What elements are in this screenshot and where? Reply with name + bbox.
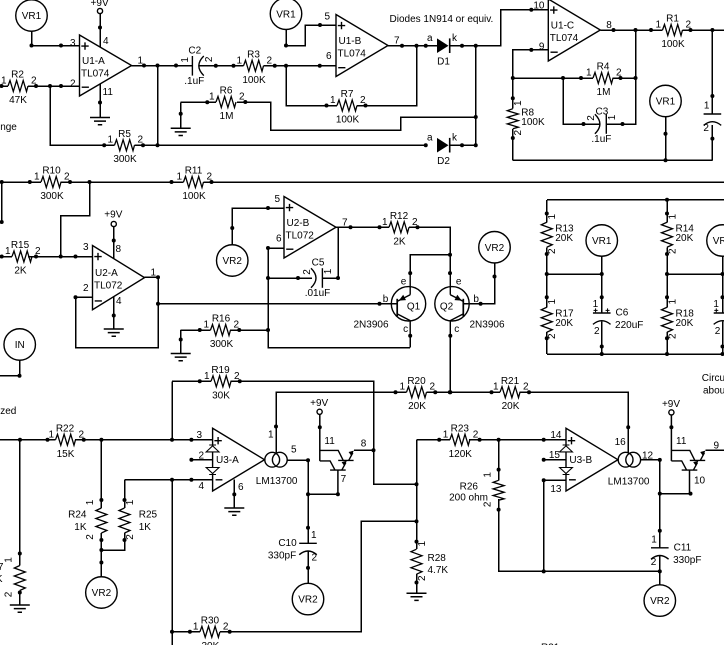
svg-text:VR2: VR2 [92, 588, 112, 599]
wire C2 to R3 [199, 65, 244, 67]
svg-text:1: 1 [713, 299, 719, 310]
junction dots [336, 276, 340, 280]
junction dots [284, 23, 322, 48]
wire R4 to output node [613, 77, 636, 79]
wire Q1 collector [409, 336, 411, 348]
svg-text:7: 7 [341, 474, 347, 485]
svg-text:20K: 20K [676, 318, 694, 329]
svg-text:C6: C6 [616, 308, 629, 319]
svg-text:1: 1 [5, 246, 11, 257]
svg-text:2: 2 [667, 248, 678, 254]
wire D1 cathode to U1-C pin 10 [451, 10, 549, 46]
wire R22 left down to R27 [19, 440, 21, 566]
svg-text:330pF: 330pF [268, 550, 296, 561]
junction dots [142, 64, 178, 68]
svg-text:TL074: TL074 [81, 69, 110, 80]
junction dots [415, 519, 419, 543]
junction dots [582, 122, 586, 126]
junction dots [372, 448, 419, 486]
svg-text:2: 2 [547, 248, 558, 254]
junction dots [189, 458, 193, 462]
+9V supply (U2-A pin 8) [104, 209, 122, 226]
svg-text:U2-A: U2-A [95, 268, 118, 279]
svg-text:47K: 47K [9, 95, 27, 106]
junction dots [619, 76, 638, 80]
ground (U1-A pin 11) [90, 118, 110, 125]
svg-text:1: 1 [193, 621, 199, 632]
svg-text:1: 1 [651, 534, 657, 545]
svg-text:VR2: VR2 [650, 596, 670, 607]
node VR2 (Q2 base) [479, 232, 511, 264]
resistor R15 [5, 240, 41, 276]
svg-text:2: 2 [312, 552, 318, 563]
wire R20 to R21 [427, 391, 501, 393]
svg-text:IN: IN [15, 340, 25, 351]
svg-text:a: a [427, 33, 433, 44]
junction dots [336, 492, 340, 496]
wire VR2 to U2-B pin 5 [232, 208, 284, 245]
svg-text:R11: R11 [185, 166, 203, 177]
+9V supply (U1-A pin 4) [91, 0, 109, 14]
wire pin 8 to R23/R28 node [354, 450, 417, 484]
op-amp U3-A LM13700 [196, 428, 298, 493]
svg-text:2N3906: 2N3906 [353, 319, 388, 330]
svg-text:9: 9 [539, 42, 545, 53]
svg-text:15K: 15K [57, 449, 75, 460]
svg-text:3: 3 [196, 430, 202, 441]
wire C4 bottom [711, 125, 713, 160]
svg-text:R3: R3 [247, 49, 260, 60]
svg-text:11: 11 [103, 87, 114, 98]
resistor R16 [203, 314, 239, 350]
wire R23 row / U3-B pin 14 [417, 439, 567, 441]
svg-text:1: 1 [382, 217, 388, 228]
svg-text:1: 1 [399, 382, 405, 393]
wire Q1 base lead [362, 303, 397, 305]
junction dots [232, 492, 236, 496]
svg-text:2: 2 [586, 115, 597, 121]
svg-text:LM13700: LM13700 [256, 476, 298, 487]
wire IN stem [0, 360, 20, 376]
wire R28 node to R30 [220, 521, 417, 631]
svg-text:1: 1 [547, 299, 558, 305]
wire R26 bottom to C11 bottom [499, 499, 660, 571]
wire U3-A pin 1 up to R20 rail [276, 392, 407, 452]
svg-text:U1-A: U1-A [82, 56, 105, 67]
junction dots [424, 143, 464, 147]
wire C11 bottom to VR2 [659, 556, 661, 586]
svg-text:R30: R30 [201, 615, 220, 626]
wire U2-A output to Q1 base [158, 303, 397, 305]
svg-text:1: 1 [203, 320, 209, 331]
wire mid rail cell 1 [547, 273, 602, 275]
wire C6 bottom to rail [601, 322, 603, 355]
svg-text:2: 2 [513, 129, 524, 135]
junction dots [237, 328, 241, 332]
junction dots [689, 28, 715, 32]
junction dots [437, 438, 546, 442]
resistor R23 [443, 423, 479, 459]
svg-text:1: 1 [180, 57, 191, 63]
svg-text:D2: D2 [437, 156, 450, 167]
svg-text:1: 1 [204, 371, 210, 382]
ground (R28) [407, 593, 427, 600]
svg-text:U3-A: U3-A [216, 455, 239, 466]
svg-text:20K: 20K [408, 401, 426, 412]
svg-text:R23: R23 [451, 423, 470, 434]
svg-text:R2: R2 [11, 70, 24, 81]
svg-text:7: 7 [394, 36, 400, 47]
wire pin-6 node down to R7 [286, 66, 337, 106]
svg-text:TL074: TL074 [550, 33, 579, 44]
junction dots [665, 212, 669, 341]
junction dots [205, 100, 209, 104]
junction dots [497, 508, 662, 574]
junction dots [230, 206, 270, 230]
junction dots [98, 26, 102, 30]
junction dots [18, 591, 22, 595]
svg-text:R6: R6 [220, 86, 233, 97]
junction dots [527, 390, 630, 429]
junction dots [99, 498, 126, 502]
wire R19 down to R22 rail [171, 381, 173, 440]
resistor R27 [0, 557, 25, 598]
junction dots [474, 115, 478, 147]
svg-text:10: 10 [533, 0, 545, 11]
junction dots [664, 132, 668, 163]
wire pin 13 down to bottom wire [543, 480, 545, 571]
svg-text:1: 1 [311, 530, 317, 541]
svg-text:LM13700: LM13700 [608, 477, 650, 488]
svg-text:VR1: VR1 [656, 97, 676, 108]
wire bottom feedback rail [513, 159, 713, 161]
wire R16 to pin-6 node [230, 329, 268, 331]
wire R3 to U1-B pin 6 [264, 65, 337, 67]
wire U2-B pin 6 node down/right to Q1 collector [268, 248, 410, 348]
node VR1 (U1-C feedback) [650, 85, 682, 117]
svg-text:30K: 30K [202, 641, 220, 645]
node VR2 (bias cell 2, cut at edge) [707, 225, 724, 257]
wire VR1 stem to C6 [601, 256, 603, 313]
svg-text:1: 1 [330, 95, 336, 106]
junction dots [243, 100, 247, 104]
resistor R14 [662, 214, 695, 255]
wire R15 row to U2-A pin 3 [0, 256, 93, 258]
resistor R30 [193, 615, 229, 645]
diode (U3-B linearizing, lower) [560, 468, 573, 475]
wire to VR2 [100, 550, 102, 577]
junction dots [188, 630, 232, 634]
svg-text:1: 1 [704, 101, 710, 112]
transistor Q1 2N3906 [353, 273, 425, 336]
wire VR1 stem [285, 30, 287, 46]
wire C5 to U2-B output [322, 227, 338, 278]
svg-text:1: 1 [443, 429, 449, 440]
wire U2-A pin 2 feedback loop [76, 277, 159, 347]
wire U3-B output pin 12 down to C11 [641, 460, 660, 548]
svg-text:4: 4 [103, 36, 109, 47]
junction dots [665, 352, 724, 356]
svg-text:R7: R7 [341, 89, 354, 100]
junction dots [561, 76, 583, 80]
resistor R5 [107, 129, 143, 165]
svg-text:D1: D1 [437, 57, 450, 68]
node VR2 (R24/R25) [86, 577, 118, 609]
diode (U3-B linearizing, upper) [560, 445, 573, 452]
junction dots [102, 143, 159, 147]
wire pin-4 node long vertical to bottom edge [171, 480, 173, 645]
svg-text:16: 16 [615, 437, 627, 448]
wire to R5 / D2 anode rail [50, 86, 426, 145]
svg-text:2: 2 [703, 123, 709, 134]
junction dots [198, 328, 202, 332]
wire R2 row to U1-A pin 2 [0, 85, 80, 87]
svg-text:6: 6 [276, 234, 282, 245]
junction dots [306, 566, 310, 570]
junction dots [306, 458, 310, 530]
wire R16 ground stem [180, 330, 182, 354]
svg-text:2: 2 [302, 269, 313, 275]
junction dots [621, 122, 625, 126]
+9V supply (U3-A buffer pin 11) [310, 398, 328, 414]
svg-text:4: 4 [116, 296, 122, 307]
svg-text:2: 2 [715, 326, 721, 337]
svg-text:6: 6 [326, 51, 332, 62]
junction dots [349, 225, 382, 229]
resistor R22 [48, 423, 84, 459]
op-amp U1-C [548, 0, 612, 61]
svg-text:R22: R22 [56, 423, 75, 434]
wire R16 to ground [181, 329, 211, 331]
svg-text:2: 2 [417, 575, 428, 581]
junction dots [112, 314, 116, 318]
svg-text:c: c [454, 324, 459, 335]
ground (R16) [171, 354, 191, 361]
node VR2 (C11) [644, 585, 676, 617]
svg-text:330pF: 330pF [673, 555, 701, 566]
svg-text:R4: R4 [597, 62, 610, 73]
wire R7 to U1-B output [357, 46, 417, 106]
svg-text:1: 1 [607, 114, 618, 120]
junction dots [665, 198, 669, 202]
junction dots [542, 458, 546, 462]
resistor R24 [68, 499, 107, 540]
svg-text:2K: 2K [393, 236, 406, 247]
svg-text:2: 2 [204, 56, 215, 62]
capacitor C5 .01uF [302, 258, 334, 300]
resistor R10 [34, 166, 70, 202]
resistor R13 [541, 214, 574, 255]
svg-text:30K: 30K [212, 390, 230, 401]
svg-text:1: 1 [209, 92, 215, 103]
svg-text:1: 1 [586, 68, 592, 79]
svg-text:2: 2 [651, 557, 657, 568]
node VR1 (U1-B) [270, 0, 302, 30]
wire R10/R11 long rail [0, 181, 724, 183]
svg-text:1: 1 [268, 430, 274, 441]
node VR2 (C10) [292, 583, 324, 615]
svg-text:11: 11 [676, 436, 687, 447]
wire U1-A pin 11 to ground [99, 84, 101, 118]
svg-text:U2-B: U2-B [287, 218, 310, 229]
junction dots [511, 96, 515, 140]
resistor R18 [662, 299, 695, 340]
wire pin 5 to pin 7 [308, 493, 338, 495]
wire U3-B pin 15 stub [544, 459, 566, 461]
svg-text:2: 2 [85, 534, 96, 540]
svg-text:120K: 120K [449, 449, 473, 460]
junction dots [497, 468, 501, 472]
svg-text:2N3906: 2N3906 [470, 319, 505, 330]
junction dots [479, 275, 497, 306]
wire R19 row [172, 381, 374, 450]
svg-text:2K: 2K [14, 266, 27, 277]
svg-text:20K: 20K [676, 233, 694, 244]
svg-text:Diodes 1N914 or equiv.: Diodes 1N914 or equiv. [390, 14, 494, 25]
junction dots [274, 390, 398, 428]
resistor R19 [204, 365, 240, 401]
wire R27 to ground [19, 591, 21, 606]
svg-text:300K: 300K [113, 154, 137, 165]
op-amp U1-A [80, 35, 144, 96]
svg-text:.01uF: .01uF [305, 288, 331, 299]
svg-text:VR2: VR2 [485, 243, 505, 254]
resistor R20 [399, 376, 435, 412]
junction dots [658, 458, 662, 533]
wire R22 row to U3-A pin 3 [0, 439, 213, 441]
svg-text:+9V: +9V [662, 399, 680, 410]
resistor R26 [449, 472, 504, 508]
wire R22 rail down to R24 [100, 440, 102, 508]
svg-text:100K: 100K [336, 115, 360, 126]
svg-text:R25: R25 [139, 510, 158, 521]
svg-text:R24: R24 [68, 510, 87, 521]
resistor R21 [493, 376, 529, 412]
svg-text:5: 5 [274, 194, 280, 205]
svg-text:1: 1 [547, 214, 558, 220]
junction dots [179, 338, 183, 342]
junction dots [296, 276, 300, 280]
svg-text:11: 11 [324, 436, 335, 447]
wire R28 to ground [416, 574, 418, 593]
resistor R17 [541, 299, 574, 340]
svg-text:2: 2 [83, 283, 89, 294]
svg-text:2: 2 [473, 429, 479, 440]
svg-text:2: 2 [223, 621, 229, 632]
wire C7 bottom to rail [722, 322, 724, 355]
svg-text:R21: R21 [501, 376, 520, 387]
node IN [4, 329, 36, 361]
wire R14/R18 column [666, 200, 668, 354]
junction dots [318, 425, 322, 429]
junction dots [170, 630, 174, 634]
diode D1 [427, 33, 458, 68]
svg-text:20K: 20K [555, 233, 573, 244]
junction dots [0, 84, 63, 88]
junction dots [0, 220, 4, 224]
svg-text:100K: 100K [521, 117, 545, 128]
wire U2-A pin 4 to ground [113, 297, 115, 329]
junction dots [18, 552, 22, 556]
resistor R8 [507, 100, 545, 136]
wire R6 to ground corner [181, 101, 216, 103]
junction dots [99, 538, 126, 552]
svg-text:1: 1 [236, 55, 242, 66]
svg-text:1: 1 [417, 540, 428, 546]
junction dots [179, 112, 183, 116]
svg-text:1: 1 [48, 429, 54, 440]
resistor R28 [411, 540, 448, 581]
resistor R4 [586, 62, 622, 98]
wire D1/D2 cathode junction vertical [475, 46, 477, 146]
node VR1 (top left) [16, 0, 48, 31]
svg-text:100K: 100K [661, 39, 685, 50]
wire R6 ground stem [180, 102, 182, 128]
wire +9V to U2-A pin 8 [113, 227, 115, 259]
junction dots [170, 478, 193, 482]
junction dots [18, 438, 193, 442]
svg-text:4: 4 [198, 481, 204, 492]
capacitor C6 220uF [593, 299, 644, 337]
transistor Q2 2N3906 [435, 273, 505, 336]
svg-text:1: 1 [513, 100, 524, 106]
transistor U3-B output darlington (pins 11, 9, 10) [671, 415, 719, 494]
op-amp U1-B [336, 15, 400, 77]
svg-text:C11: C11 [674, 543, 692, 554]
svg-text:U1-B: U1-B [339, 36, 362, 47]
wire pin-6 node to C5 [268, 277, 312, 279]
transistor U3-A output darlington (pins 11, 8, 7) [320, 415, 367, 495]
svg-text:14: 14 [550, 430, 562, 441]
op-amp U2-B [284, 197, 348, 259]
op-amp U2-A [93, 246, 157, 310]
wire U2-A output [145, 276, 159, 278]
svg-text:TL072: TL072 [94, 281, 123, 292]
ground (R6) [171, 128, 191, 135]
junction dots [30, 44, 64, 48]
svg-text:VR1: VR1 [592, 236, 612, 247]
svg-text:10: 10 [694, 476, 706, 487]
junction dots [542, 478, 546, 482]
junction dots [74, 295, 78, 299]
junction dots [325, 104, 368, 108]
wire U3-A pin 5 output down to C10 [287, 460, 308, 543]
wire U2-B output to R12 [336, 226, 389, 228]
wire output to buffer pin 10 [660, 493, 691, 495]
wire R1 node down to C4 [711, 30, 713, 114]
wire +9V to U1-A pin 4 [99, 14, 101, 48]
svg-text:R20: R20 [407, 376, 426, 387]
junction dots [198, 379, 242, 383]
svg-text:C2: C2 [188, 46, 201, 57]
svg-text:R16: R16 [212, 314, 231, 325]
wire R10 junction step down to R15 rail [61, 182, 90, 257]
wire R13/R17 column [546, 200, 548, 354]
node VR1 (bias cell 1) [586, 225, 618, 257]
svg-text:3: 3 [83, 242, 89, 253]
svg-text:5: 5 [291, 445, 297, 456]
junction dots [460, 8, 533, 48]
svg-text:about: about [703, 385, 724, 396]
svg-text:1: 1 [85, 499, 96, 505]
junction dots [408, 271, 412, 275]
wire R1 to right edge [683, 29, 724, 31]
resistor R12 [382, 211, 418, 247]
junction dots [0, 255, 78, 259]
svg-text:1K: 1K [0, 574, 3, 585]
+9V supply (U3-B buffer pin 11) [662, 399, 680, 415]
svg-text:VR2: VR2 [223, 256, 243, 267]
